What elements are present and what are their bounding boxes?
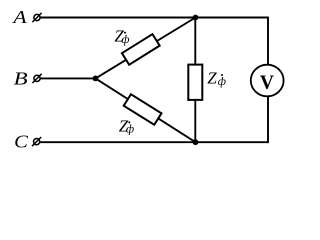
impedance Zf lower (tilted) [124, 94, 162, 125]
svg-text:V: V [260, 73, 274, 94]
terminal B [32, 74, 41, 83]
svg-text:B: B [14, 69, 28, 89]
terminal C [32, 137, 41, 146]
label Zf upper [114, 27, 129, 46]
voltmeter V [251, 65, 284, 97]
wire diagonal B-bottom [96, 78, 196, 142]
wire vertical impedance top lead [194, 18, 196, 66]
svg-text:A: A [12, 7, 28, 27]
wire right vertical top [267, 17, 269, 66]
terminal A [32, 13, 41, 22]
svg-text:ф: ф [218, 76, 226, 88]
wire vertical impedance bottom lead [194, 99, 196, 142]
svg-text:ф: ф [121, 34, 129, 46]
impedance Zf middle (vertical) [188, 65, 202, 100]
svg-text:Z: Z [207, 68, 217, 87]
svg-text:C: C [14, 132, 29, 152]
label Zf lower [119, 117, 134, 136]
node top junction [193, 15, 199, 21]
wire B [41, 77, 97, 79]
wire right vertical bottom [267, 96, 269, 143]
wire diagonal B-top [96, 18, 196, 79]
wire C bottom [40, 141, 268, 143]
label Zf middle [207, 68, 226, 88]
svg-text:ф: ф [126, 123, 134, 135]
node bottom junction [193, 139, 199, 145]
node B junction [93, 76, 99, 82]
impedance Zf upper (tilted) [122, 34, 160, 65]
wire A top [41, 17, 269, 19]
